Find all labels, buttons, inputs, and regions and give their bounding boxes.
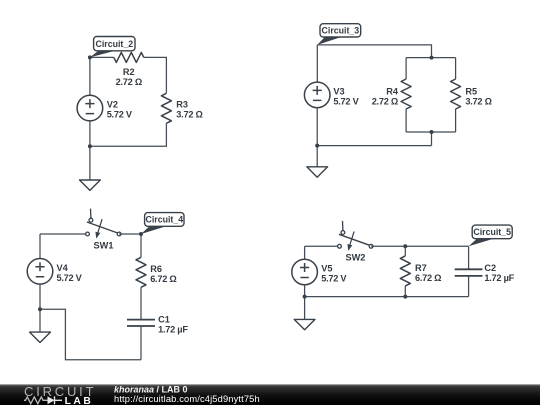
svg-text:3.72 Ω: 3.72 Ω — [176, 110, 202, 120]
svg-text:1.72 µF: 1.72 µF — [158, 325, 188, 335]
svg-text:C2: C2 — [484, 263, 496, 273]
svg-text:Circuit_3: Circuit_3 — [322, 25, 360, 35]
svg-text:Circuit_4: Circuit_4 — [145, 215, 183, 225]
svg-text:1.72 µF: 1.72 µF — [484, 273, 514, 283]
svg-text:R2: R2 — [123, 67, 135, 77]
svg-text:2.72 Ω: 2.72 Ω — [372, 97, 398, 107]
svg-text:R5: R5 — [465, 87, 477, 97]
svg-text:C1: C1 — [158, 315, 170, 325]
svg-text:Circuit_5: Circuit_5 — [473, 227, 511, 237]
svg-text:SW1: SW1 — [94, 241, 114, 251]
svg-text:Circuit_2: Circuit_2 — [95, 39, 133, 49]
svg-text:5.72 V: 5.72 V — [321, 274, 347, 284]
svg-text:5.72 V: 5.72 V — [107, 110, 133, 120]
svg-text:SW2: SW2 — [345, 252, 365, 262]
svg-text:V5: V5 — [321, 264, 332, 274]
svg-text:3.72 Ω: 3.72 Ω — [465, 97, 491, 107]
svg-text:R3: R3 — [176, 100, 188, 110]
svg-text:V2: V2 — [107, 100, 118, 110]
svg-text:2.72 Ω: 2.72 Ω — [116, 77, 142, 87]
svg-text:R4: R4 — [386, 87, 399, 97]
svg-text:R7: R7 — [415, 263, 427, 273]
svg-text:http://circuitlab.com/c4j5d9ny: http://circuitlab.com/c4j5d9nytt75h — [114, 394, 260, 404]
svg-text:6.72 Ω: 6.72 Ω — [150, 274, 176, 284]
svg-text:V3: V3 — [333, 87, 344, 97]
svg-text:5.72 V: 5.72 V — [333, 97, 359, 107]
svg-text:LAB: LAB — [65, 396, 94, 405]
svg-text:5.72 V: 5.72 V — [57, 273, 83, 283]
svg-text:V4: V4 — [57, 263, 69, 273]
svg-text:R6: R6 — [150, 264, 162, 274]
svg-text:6.72 Ω: 6.72 Ω — [415, 273, 441, 283]
